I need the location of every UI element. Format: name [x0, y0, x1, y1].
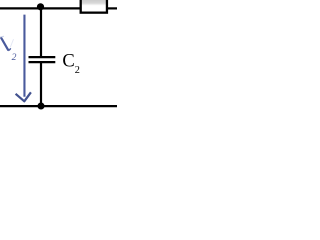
- svg-text:C: C: [62, 52, 74, 72]
- voltage arrow V2 shaft: [23, 15, 25, 97]
- svg-text:2: 2: [12, 52, 17, 63]
- wire bottom horizontal: [0, 105, 117, 107]
- label V2: bottom hook of V vertex: [8, 48, 11, 50]
- node B (bottom junction dot): [37, 102, 44, 109]
- label V2: faint hairline right stroke: [10, 39, 13, 47]
- label V2 (letter V, cut off at left edge): thick left stroke: [1, 37, 9, 50]
- background: [0, 0, 117, 117]
- capacitor C2 top plate: [29, 56, 56, 58]
- svg-text:2: 2: [75, 65, 80, 76]
- node A (top junction dot): [37, 3, 44, 10]
- capacitor C2 bottom plate: [29, 61, 56, 63]
- wire top-right stub: [107, 7, 117, 9]
- resistor R1 (box symbol, cut off at top): [81, 0, 107, 13]
- voltage arrow V2 head: [16, 92, 31, 101]
- wire top-left horizontal: [0, 7, 80, 9]
- wire vertical lower segment: [40, 62, 42, 106]
- label V2: top serif fragment: [0, 35, 4, 38]
- wire vertical upper segment: [40, 8, 42, 57]
